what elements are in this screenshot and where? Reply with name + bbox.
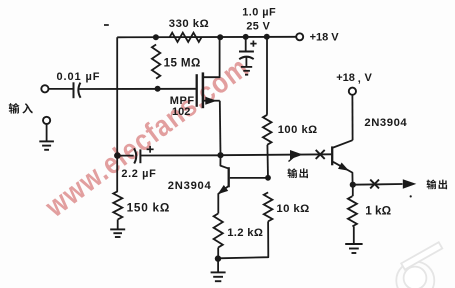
svg-text:100 kΩ: 100 kΩ (278, 124, 318, 136)
svg-text:+18: +18 (336, 72, 355, 84)
svg-text:330 kΩ: 330 kΩ (169, 18, 209, 30)
svg-text:1 kΩ: 1 kΩ (365, 204, 391, 218)
svg-text:15 MΩ: 15 MΩ (164, 57, 201, 70)
svg-text:0.01 µF: 0.01 µF (57, 71, 101, 83)
svg-text:+18 V: +18 V (310, 32, 340, 44)
svg-text:102: 102 (172, 106, 190, 118)
svg-text:10 kΩ: 10 kΩ (276, 203, 309, 215)
svg-text:25 V: 25 V (246, 20, 270, 32)
svg-text:1.2 kΩ: 1.2 kΩ (227, 227, 263, 239)
svg-text:2N3904: 2N3904 (168, 180, 212, 192)
svg-text:2.2 µF: 2.2 µF (121, 168, 156, 180)
svg-text:V: V (365, 72, 373, 84)
svg-text:1.0 µF: 1.0 µF (242, 7, 276, 19)
svg-text:2N3904: 2N3904 (364, 117, 407, 129)
svg-text:,: , (358, 73, 361, 85)
svg-text:150 kΩ: 150 kΩ (127, 201, 170, 215)
